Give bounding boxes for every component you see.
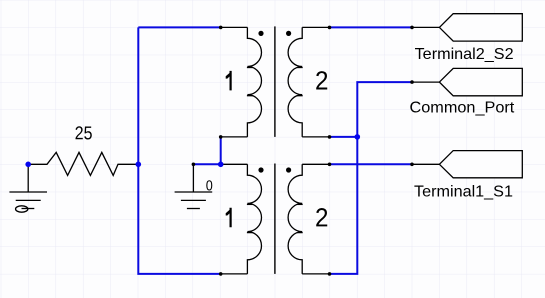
- svg-text:Common_Port: Common_Port: [410, 100, 515, 117]
- svg-text:Terminal2_S2: Terminal2_S2: [415, 46, 514, 63]
- svg-text:Terminal1_S1: Terminal1_S1: [414, 183, 513, 200]
